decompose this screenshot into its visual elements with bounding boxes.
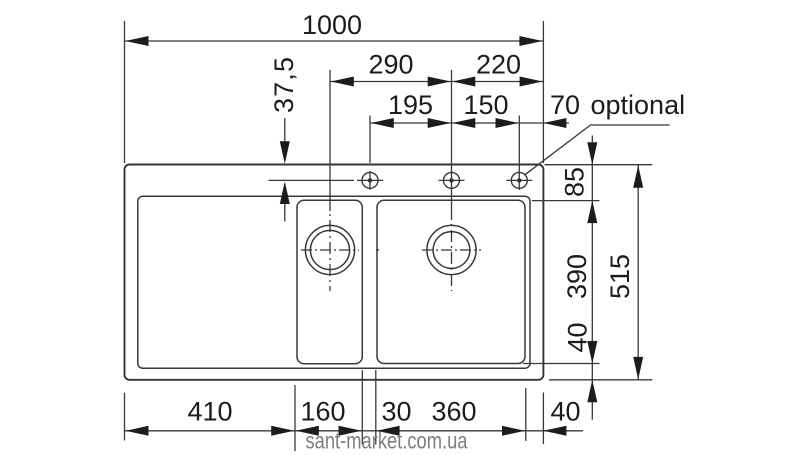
right extension line at bowl bottom — [523, 363, 600, 365]
svg-text:195: 195 — [388, 90, 433, 120]
arrow dim 515 bottom (pointing down) — [633, 357, 643, 380]
dim 85/390/40 vertical dimension line — [591, 136, 593, 420]
arrow dim 37,5 lower (pointing up) — [280, 182, 290, 205]
faucet hole 2 horizontal crosshair — [439, 179, 465, 181]
arrow dim 410 left — [126, 426, 149, 436]
arrow dim 37,5 upper (pointing down) — [280, 141, 290, 164]
faucet hole 1 horizontal crosshair — [357, 179, 383, 181]
dim 195/150/70 dimension line with tail under 70 text — [370, 122, 569, 124]
large bowl outline — [377, 200, 525, 363]
dim 37,5 upper dimension line — [284, 118, 286, 150]
svg-text:40: 40 — [550, 397, 580, 427]
faucet hole 1 circle — [362, 172, 378, 188]
large bowl drain inner circle — [433, 232, 470, 269]
arrow dim 290 left — [331, 77, 354, 87]
dim 1000 right extension line — [542, 21, 544, 163]
small drain vertical centerline dash-dot — [329, 214, 331, 291]
large drain horizontal centerline dash-dot — [422, 249, 481, 251]
small bowl outline — [297, 200, 362, 363]
sink outer outline — [125, 165, 544, 380]
dim 37,5 lower tail line — [284, 196, 286, 222]
svg-text:290: 290 — [368, 50, 413, 80]
arrow dim 195 right — [428, 118, 451, 128]
svg-text:220: 220 — [476, 50, 521, 80]
faucet hole 3 circle — [511, 172, 527, 188]
faucet hole 1 center dot — [368, 178, 372, 182]
arrow dim 515 top (pointing up) — [633, 165, 643, 188]
sink rim inner outline — [138, 196, 530, 368]
arrow dim 220 right — [520, 77, 543, 87]
svg-text:85: 85 — [560, 167, 590, 197]
arrow dim 70 right (outside, pointing left) — [543, 118, 566, 128]
arrow dim 290 right — [428, 77, 451, 87]
faucet hole 3 horizontal crosshair — [506, 179, 532, 181]
arrow dim 195 left — [371, 118, 394, 128]
faucet hole 1 vertical crosshair — [369, 171, 371, 190]
arrow dim 150 right — [496, 118, 519, 128]
large bowl drain outer circle — [427, 225, 476, 274]
small bowl drain inner circle — [310, 230, 349, 269]
arrow dim 1000 left — [126, 36, 149, 46]
leader line from optional hole 3 — [525, 125, 670, 175]
arrow dim 390/40 shared (pointing down at bowl bottom line) — [587, 341, 597, 364]
arrow dim 410 right — [271, 426, 294, 436]
svg-text:1000: 1000 — [302, 10, 362, 40]
right extension line at bowl top — [532, 200, 600, 202]
dim 195 left extension line (hole 1) — [369, 116, 371, 164]
small bowl drain outer circle — [305, 225, 354, 274]
arrow dim 220 left — [452, 77, 475, 87]
svg-text:360: 360 — [431, 397, 476, 427]
svg-text:410: 410 — [187, 397, 232, 427]
small drain horizontal centerline dash-dot — [301, 249, 359, 251]
faucet hole 3 center dot — [517, 178, 521, 182]
arrow dim 40 bottom (pointing up at sink bottom line) — [587, 380, 597, 403]
large drain vertical centerline solid part (extension from 220 dim through hole 2) — [451, 70, 453, 220]
arrow dim 360 right — [502, 426, 525, 436]
arrow dim 160 left — [296, 426, 319, 436]
arrow dim 40 bottom right (outside, pointing left) — [543, 426, 566, 436]
svg-text:sant-market.com.ua: sant-market.com.ua — [306, 428, 468, 454]
arrow dim 85 top (pointing down at sink top line) — [587, 142, 597, 165]
arrow dim 160 right — [339, 426, 362, 436]
svg-text:515: 515 — [605, 254, 635, 299]
large drain vertical centerline dash-dot — [451, 224, 453, 291]
svg-text:150: 150 — [463, 90, 508, 120]
svg-text:40: 40 — [563, 322, 593, 352]
dim 1000 dimension line — [125, 40, 544, 42]
right extension line at sink bottom — [549, 379, 652, 381]
dim 1000 left extension line — [124, 21, 126, 163]
svg-text:30: 30 — [381, 397, 411, 427]
svg-text:optional: optional — [591, 90, 686, 120]
svg-text:70: 70 — [550, 90, 580, 120]
dim 37,5 extension line at hole centerline — [269, 179, 355, 181]
bottom chain dimension line — [125, 430, 584, 432]
small drain horizontal centerline dot right — [376, 249, 379, 251]
svg-text:160: 160 — [300, 397, 345, 427]
arrow dim 360 left — [377, 426, 400, 436]
right extension line at sink top — [545, 164, 653, 166]
dim 290/220 dimension line — [330, 81, 543, 83]
bottom extension tick sink left — [124, 393, 126, 441]
bottom extension tick sink right — [542, 393, 544, 445]
bottom extension tick large bowl right — [525, 388, 527, 441]
faucet hole 2 center dot — [449, 178, 453, 182]
dim 150 right extension line (hole 3) — [518, 116, 520, 190]
bottom extension tick large bowl left — [375, 370, 377, 445]
arrow dim 150 left — [452, 118, 475, 128]
arrow dim 1000 right — [519, 36, 542, 46]
arrow dim 85/390 shared (pointing up at bowl top line) — [587, 201, 597, 224]
faucet hole 2 circle — [444, 172, 460, 188]
svg-text:37,5: 37,5 — [269, 57, 299, 113]
bottom extension tick small bowl right — [361, 370, 363, 445]
dim 515 vertical dimension line — [637, 165, 639, 379]
small drain vertical centerline solid part (extension from 290 dim) — [329, 70, 331, 211]
svg-text:390: 390 — [562, 254, 592, 299]
bottom extension tick small bowl left — [294, 385, 296, 451]
